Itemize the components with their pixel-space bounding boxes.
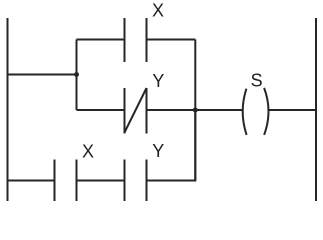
label Y (NC contact) xyxy=(152,71,164,91)
svg-text:Y: Y xyxy=(152,71,164,91)
wire: coil to right rail xyxy=(269,109,316,111)
svg-text:Y: Y xyxy=(152,141,164,161)
wire: top rung left segment xyxy=(77,39,125,41)
wire: right merge vertical at x=195.3 xyxy=(194,40,196,181)
label S (coil) xyxy=(251,70,263,90)
wire: middle rung left segment xyxy=(77,109,125,111)
contact X bottom rung (normally open) xyxy=(55,160,77,202)
wire: bottom rung from left rail xyxy=(8,180,55,182)
wire: bottom rung right segment up to junction B xyxy=(147,110,196,181)
label Y (bottom contact) xyxy=(152,141,164,161)
junction A dot xyxy=(74,72,79,77)
contact X top rung (normally open) xyxy=(125,18,147,62)
label X (bottom contact) xyxy=(82,142,94,162)
label X (top contact) xyxy=(152,1,164,21)
wire: bottom rung middle segment xyxy=(77,180,125,182)
wire: parallel-branch vertical at x=76.5 xyxy=(76,40,78,111)
svg-text:X: X xyxy=(82,142,94,162)
wire: middle rung from junction B to coil xyxy=(147,109,244,111)
coil S (output) xyxy=(243,88,269,135)
right power rail xyxy=(315,18,317,201)
wire: top rung right segment xyxy=(147,39,196,41)
wire: feed from left rail to junction A xyxy=(8,74,77,76)
junction B dot xyxy=(193,108,198,113)
contact Y bottom rung (normally open) xyxy=(125,160,147,202)
contact Y middle rung (normally closed) xyxy=(125,88,147,134)
left power rail xyxy=(7,18,9,201)
svg-text:S: S xyxy=(251,70,263,90)
svg-text:X: X xyxy=(152,1,164,21)
